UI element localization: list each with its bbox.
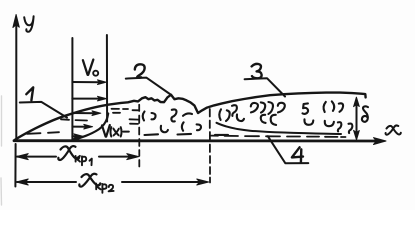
V0 arrow y=98.5	[72, 96, 106, 101]
x-axis (wall)	[14, 138, 386, 145]
faint scan smudge left edge	[0, 96, 3, 205]
profile arrow y=113	[72, 111, 100, 116]
V0 arrow y=82	[72, 80, 106, 85]
y-axis	[13, 15, 19, 142]
velocity channel right line	[106, 35, 108, 122]
x_kp1 dimension line	[16, 154, 138, 160]
profile arrow y=136	[72, 134, 82, 139]
V(x) label	[102, 125, 129, 137]
x axis label	[386, 125, 401, 134]
V0 label	[83, 60, 98, 76]
V(x) velocity profile parabola	[73, 114, 109, 140]
dashed streamlines in laminar BL	[27, 109, 139, 134]
dashed line near wall (turbulent zone)	[211, 136, 346, 137]
label 2 with leader	[126, 64, 172, 95]
delta label	[362, 106, 368, 121]
turbulence squiggles group B (x 230-355)	[232, 101, 352, 133]
left extension tick below origin	[14, 144, 16, 187]
dashed vertical at x_kp1 end	[138, 105, 140, 167]
curve 4: viscous sublayer	[217, 123, 342, 134]
delta dimension double arrow	[354, 97, 360, 140]
label 1 with leader	[20, 87, 67, 117]
label 4 with leader	[268, 136, 309, 163]
x_kp1 label	[58, 146, 91, 165]
label 3 with leader	[245, 64, 285, 97]
x_kp2 label	[79, 174, 113, 193]
x_kp2 dimension line	[16, 179, 208, 185]
turbulence squiggles group A (x 137-230)	[143, 109, 230, 135]
profile arrow y=126.5	[72, 124, 92, 129]
y axis label	[24, 16, 33, 31]
velocity channel left line	[71, 38, 73, 140]
dashed vertical at x_kp2 end	[209, 109, 211, 183]
boundary layer top curve (laminar -> transition -> turbulent)	[15, 93, 366, 140]
